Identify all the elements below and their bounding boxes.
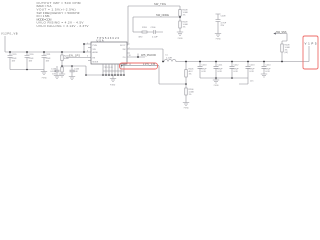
svg-text:SW_NODE: SW_NODE [156,13,169,17]
svg-text:AGND: AGND [93,51,99,54]
svg-text:U5A: U5A [97,39,104,42]
svg-text:SW_TRG: SW_TRG [154,2,166,6]
svg-text:C206: C206 [151,27,157,29]
svg-text:6.3V: 6.3V [250,71,255,73]
svg-text:16V: 16V [12,61,16,63]
svg-text:R155: R155 [142,27,148,29]
svg-text:PGND: PGND [178,38,184,40]
svg-text:2.2UH: 2.2UH [166,57,172,59]
svg-text:18: 18 [129,55,131,57]
svg-text:25V: 25V [221,25,225,27]
svg-text:1%: 1% [183,27,186,29]
svg-text:PGND: PGND [110,84,116,86]
svg-text:0.1UF: 0.1UF [152,37,158,39]
svg-text:PGND: PGND [214,85,220,87]
svg-text:16V: 16V [29,61,33,63]
svg-text:C213: C213 [250,64,256,66]
svg-text:6.3V: 6.3V [218,71,223,73]
svg-text:C214: C214 [266,64,272,66]
svg-text:1%: 1% [189,94,192,96]
svg-text:15: 15 [129,64,131,66]
svg-text:6: 6 [87,51,88,53]
svg-text:PGND: PGND [184,108,190,110]
svg-text:2: 2 [129,48,130,50]
svg-text:C210: C210 [202,64,208,66]
svg-text:SW: SW [122,49,125,51]
svg-text:1%: 1% [189,74,192,76]
svg-text:4: 4 [87,56,88,58]
svg-text:7 8 9 10 11: 7 8 9 10 11 [104,67,113,69]
svg-text:MODE: MODE [93,62,99,64]
svg-text:EN_1P5: EN_1P5 [69,53,81,57]
svg-text:C211: C211 [218,64,224,66]
svg-text:BOOT: BOOT [120,45,126,47]
svg-text:PGND: PGND [216,38,222,40]
svg-text:1P5_FB: 1P5_FB [143,62,155,66]
svg-text:C208: C208 [221,16,227,18]
svg-text:C130: C130 [29,54,35,56]
svg-text:SW_SNS: SW_SNS [276,30,287,34]
svg-text:PVIN: PVIN [93,45,98,47]
svg-text:6.3V: 6.3V [202,71,207,73]
svg-text:PGND: PGND [42,78,48,80]
svg-text:604K: 604K [64,58,69,60]
svg-text:5: 5 [87,43,88,45]
svg-text:UVLO FALLING = 3.14V - 3.37V: UVLO FALLING = 3.14V - 3.37V [37,24,90,28]
svg-text:16V: 16V [46,61,50,63]
svg-text:1: 1 [129,44,130,46]
svg-text:C131: C131 [46,54,52,56]
svg-text:V12P0_VB: V12P0_VB [1,31,18,35]
svg-text:V1P5: V1P5 [305,42,317,46]
svg-text:16V: 16V [52,74,56,76]
svg-text:6.3V: 6.3V [234,71,239,73]
svg-text:(W): (W) [285,52,289,54]
svg-text:1%: 1% [183,15,186,17]
svg-text:6.3V: 6.3V [266,71,271,73]
svg-text:1P5_PGOOD: 1P5_PGOOD [141,53,156,57]
svg-text:C212: C212 [234,64,240,66]
svg-text:C129: C129 [12,54,18,56]
